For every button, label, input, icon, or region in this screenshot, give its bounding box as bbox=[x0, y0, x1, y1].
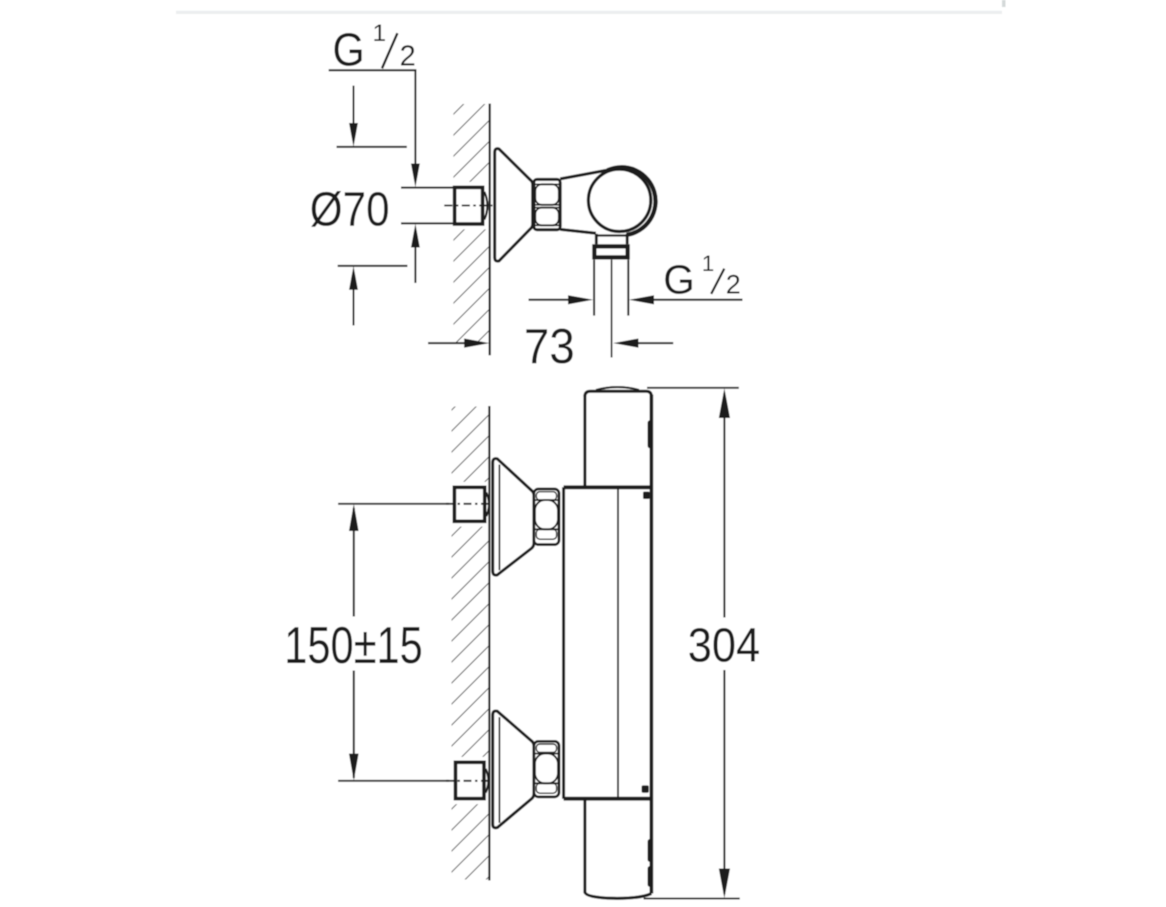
centerline through square fitting (top view) bbox=[444, 205, 492, 207]
label 73 bbox=[524, 319, 575, 374]
wall union square fitting (upper, bottom view) bbox=[454, 487, 489, 521]
union nut (top view) bbox=[534, 179, 560, 229]
label G 1/2 (outlet) bbox=[663, 251, 741, 302]
cylinder parting mark upper bbox=[648, 420, 653, 448]
escutcheon cone (upper union) bbox=[493, 459, 534, 576]
dimension G 1/2 (outlet) left arrow bbox=[529, 295, 594, 304]
svg-text:2: 2 bbox=[726, 270, 741, 300]
dimension 304 extension line top bbox=[647, 387, 739, 389]
valve body outline (top view) bbox=[560, 167, 655, 235]
housing screw mark bottom bbox=[642, 785, 649, 792]
dimension arrow down to thread top (x=415.4) bbox=[411, 70, 420, 187]
outlet pipe bbox=[594, 260, 628, 316]
dimension 150±15 extension line top bbox=[338, 503, 449, 505]
centerline lower square bbox=[446, 780, 495, 782]
label 304 bbox=[688, 618, 760, 671]
label Ø70 bbox=[310, 182, 390, 236]
dimension 150±15 extension line bottom bbox=[338, 780, 449, 782]
wall face line (top view) bbox=[489, 104, 491, 356]
thread top line bbox=[401, 187, 453, 189]
svg-text:304: 304 bbox=[688, 618, 760, 671]
wall hatching (top view) bbox=[453, 104, 490, 344]
neck below body bbox=[595, 234, 628, 245]
svg-text:1: 1 bbox=[702, 251, 715, 276]
dimension 304 line with arrows bbox=[719, 388, 730, 898]
label G 1/2 (top left) bbox=[333, 20, 416, 76]
faint frame artifact top bbox=[176, 0, 1006, 14]
chrome cylinder (bottom view) bbox=[585, 387, 652, 898]
dimension arrow up to escutcheon bottom line (x=353.5) bbox=[349, 266, 358, 326]
dimension 73 left arrow bbox=[428, 339, 489, 348]
cylinder parting mark lower b bbox=[648, 866, 653, 887]
svg-text:G: G bbox=[333, 25, 365, 77]
centerline upper square bbox=[446, 503, 495, 505]
pipe centerline bbox=[611, 260, 613, 358]
svg-text:2: 2 bbox=[400, 41, 416, 73]
extension line escutcheon bottom bbox=[338, 265, 408, 267]
union nut (lower, bottom view) bbox=[534, 741, 559, 797]
extension line escutcheon top bbox=[337, 146, 407, 148]
wall union square fitting (lower, bottom view) bbox=[456, 762, 489, 798]
mixer housing (bottom view) bbox=[564, 487, 652, 798]
dimension 150±15 line with arrows bbox=[349, 504, 359, 781]
thermostat body circle (top view) bbox=[588, 169, 650, 231]
svg-text:Ø70: Ø70 bbox=[310, 182, 390, 236]
thread bottom line bbox=[401, 222, 453, 224]
dimension 73 right arrow bbox=[613, 339, 673, 348]
housing screw mark top bbox=[643, 492, 650, 499]
svg-text:1: 1 bbox=[373, 20, 387, 47]
label 150±15 bbox=[284, 616, 422, 675]
dimension G 1/2 (outlet) right arrow bbox=[629, 295, 743, 304]
dimension arrow up to thread bottom (x=415.4) bbox=[411, 224, 420, 283]
svg-text:G: G bbox=[663, 257, 695, 303]
dimension 304 extension line bottom bbox=[644, 898, 740, 900]
dimension arrow down to escutcheon top line (x=353.5) bbox=[349, 86, 358, 147]
wall hatching (bottom view) bbox=[452, 407, 490, 880]
hose connection collar bbox=[594, 246, 627, 257]
wall union square fitting (top view) bbox=[455, 187, 488, 224]
svg-text:150±15: 150±15 bbox=[284, 616, 422, 675]
escutcheon cone (lower union) bbox=[493, 711, 534, 828]
leader shelf line under G 1/2 bbox=[329, 69, 417, 71]
union nut (upper, bottom view) bbox=[534, 489, 559, 545]
svg-text:73: 73 bbox=[524, 319, 575, 374]
escutcheon cone (top view) bbox=[495, 149, 533, 262]
wall face line (bottom view) bbox=[488, 406, 490, 881]
cylinder parting mark lower a bbox=[648, 839, 653, 862]
